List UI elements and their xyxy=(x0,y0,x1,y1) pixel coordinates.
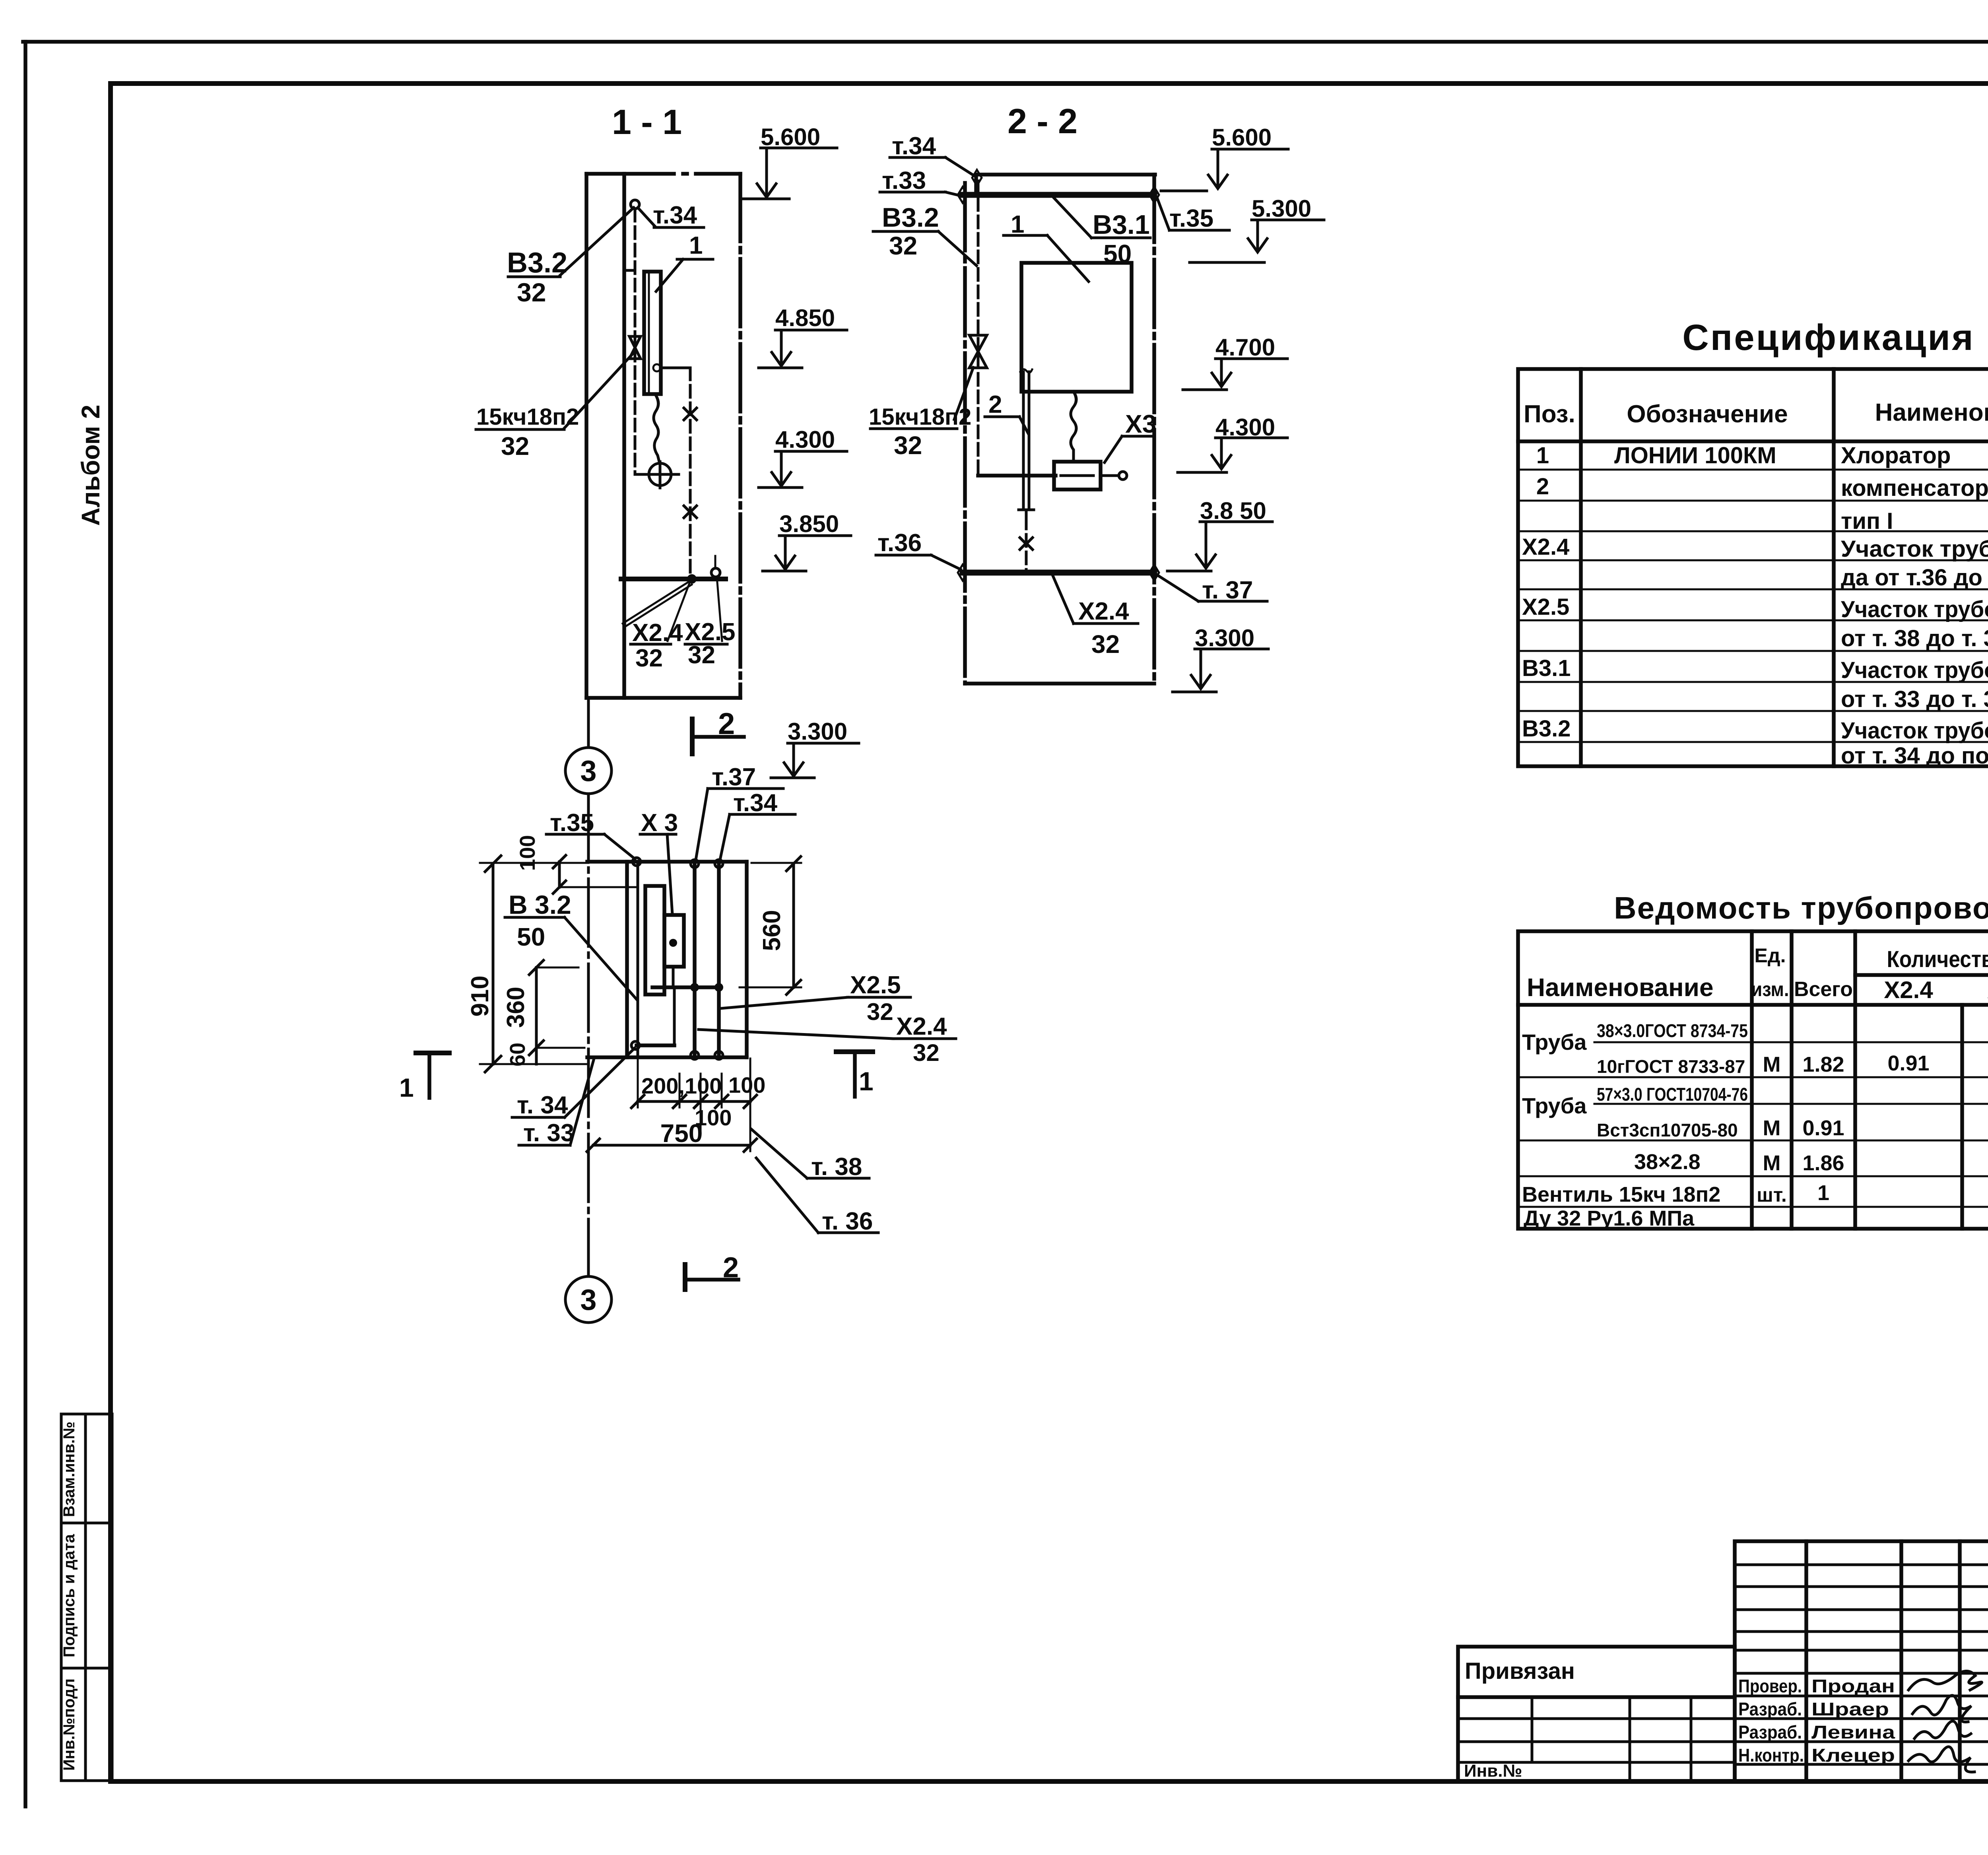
svg-text:Провер.: Провер. xyxy=(1738,1676,1802,1696)
привязан grid verticals xyxy=(1532,1697,1691,1781)
elevation 5.600 bar xyxy=(761,147,837,150)
svg-text:3.8 50: 3.8 50 xyxy=(1200,497,1266,524)
svg-text:50: 50 xyxy=(517,923,545,951)
signature grid rows xyxy=(1735,1565,1988,1764)
dim 100 line top xyxy=(558,862,561,887)
label т.34 underline xyxy=(654,226,704,229)
label Х2.5 plan leader xyxy=(720,997,848,1008)
label т.37 plan underline xyxy=(708,787,783,790)
svg-text:2 - 2: 2 - 2 xyxy=(1008,101,1077,141)
svg-text:компенсатор: компенсатор xyxy=(1841,475,1988,501)
pipe В3.2 drop xyxy=(977,181,980,476)
label 15кч18п2 bar xyxy=(476,428,564,431)
svg-text:Инв.№: Инв.№ xyxy=(1464,1761,1522,1781)
plan corner pipe vertical xyxy=(673,987,676,1045)
section 2-2 left upper edge xyxy=(974,175,978,195)
label Х2.5/32 plan bar xyxy=(848,996,911,999)
svg-text:т. 33: т. 33 xyxy=(523,1119,574,1147)
diagonal pipe line b xyxy=(625,585,692,627)
compensator 2 tube right xyxy=(1028,372,1031,507)
spec header bottom line xyxy=(1518,439,1988,443)
svg-text:Х 3: Х 3 xyxy=(641,809,678,837)
section mark 2 below 1-1 bar xyxy=(693,735,744,739)
svg-text:Альбом 2: Альбом 2 xyxy=(76,405,105,526)
pipe riser Х2.4 plan xyxy=(693,862,697,1057)
svg-text:1: 1 xyxy=(689,232,703,259)
svg-text:Подпись и дата: Подпись и дата xyxy=(60,1534,78,1657)
label т.36 leader xyxy=(931,555,961,569)
svg-text:Ведомость трубопроводов: Ведомость трубопроводов xyxy=(1614,890,1988,925)
dim 910 line xyxy=(492,864,495,1064)
svg-text:Привязан: Привязан xyxy=(1465,1658,1575,1684)
label т.33 underline xyxy=(880,191,945,194)
elevation 4.700 leg xyxy=(1220,359,1223,385)
pipe list span header underline xyxy=(1855,973,1988,977)
svg-text:60: 60 xyxy=(506,1043,530,1066)
elevation 5.600 leg xyxy=(765,148,768,196)
section 2-2 top outline xyxy=(976,173,1155,177)
svg-text:Разраб.: Разраб. xyxy=(1738,1722,1802,1742)
section mark 1 left stem xyxy=(427,1055,431,1098)
elevation 5.600 arrow xyxy=(757,184,776,197)
eductor cross vertical xyxy=(659,462,662,488)
node т.33 diamond xyxy=(958,187,967,203)
label т.37 leader xyxy=(1158,575,1198,601)
elevation 5.300 foot xyxy=(1190,261,1264,264)
elevation 4.700 arrow xyxy=(1212,373,1231,387)
label т.36 plan leader xyxy=(756,1158,818,1233)
svg-text:0.91: 0.91 xyxy=(1887,1051,1929,1075)
svg-text:32: 32 xyxy=(501,432,529,460)
svg-text:шт.: шт. xyxy=(1757,1184,1787,1206)
svg-text:Ду 32 Ру1.6 МПа: Ду 32 Ру1.6 МПа xyxy=(1524,1206,1695,1230)
specification table outline xyxy=(1518,369,1988,766)
left stamp divider 1 xyxy=(61,1522,112,1525)
elevation 3.850 foot xyxy=(763,570,806,573)
svg-text:1: 1 xyxy=(859,1066,874,1096)
svg-text:3.300: 3.300 xyxy=(1195,625,1254,651)
chlorator plan rect xyxy=(645,886,664,995)
svg-text:100: 100 xyxy=(516,835,540,871)
label т.34 plan top underline xyxy=(730,813,795,816)
compensator bottom tee xyxy=(1019,510,1034,517)
svg-text:Н.контр.: Н.контр. xyxy=(1738,1745,1804,1766)
plan wall inner line xyxy=(625,862,629,1057)
plan top wall line xyxy=(587,860,747,864)
svg-text:т.37: т.37 xyxy=(712,763,756,791)
svg-text:Хлоратор: Хлоратор xyxy=(1841,443,1951,468)
node т.37 diamond xyxy=(1149,565,1159,581)
plan cross pipe xyxy=(652,985,719,989)
elevation 5.600 right arrow xyxy=(1208,175,1227,188)
svg-text:Взам.инв.№: Взам.инв.№ xyxy=(60,1422,78,1517)
svg-text:5.300: 5.300 xyxy=(1252,195,1311,222)
svg-text:Х2.4: Х2.4 xyxy=(1078,598,1129,625)
привязан grid rows xyxy=(1458,1719,1735,1762)
dim 360 line xyxy=(535,967,538,1048)
label Х2.4 leader xyxy=(1053,576,1074,624)
outer sheet border top xyxy=(23,40,1988,44)
label Х2.4/32 plan bar xyxy=(893,1037,956,1040)
rotameter outlet plan xyxy=(672,967,675,987)
svg-text:3: 3 xyxy=(580,754,596,787)
pipe B3.2 bottom run xyxy=(978,474,1056,478)
compensator top hook xyxy=(1020,369,1032,373)
section mark 1 right bar xyxy=(836,1049,873,1054)
pipe list header bottom xyxy=(1518,1003,1988,1007)
svg-text:т.33: т.33 xyxy=(882,167,926,194)
svg-text:Поз.: Поз. xyxy=(1524,400,1575,428)
eductor cross horizontal xyxy=(647,473,679,476)
svg-text:В3.2: В3.2 xyxy=(1522,716,1571,742)
svg-text:4.850: 4.850 xyxy=(775,305,835,331)
pipe В3.1 thick top xyxy=(963,192,1154,198)
label т.33 plan leader xyxy=(570,1059,594,1145)
elevation 4.300 right bar xyxy=(1215,437,1287,439)
dim 360 top extension xyxy=(536,967,579,969)
axis 3 line through plan xyxy=(587,794,590,1276)
dim 360 top tick xyxy=(529,960,544,975)
svg-text:Труба: Труба xyxy=(1522,1029,1587,1055)
label 1 leader xyxy=(1047,235,1089,282)
floor pipe Х2.4 thick xyxy=(963,570,1154,576)
svg-text:т.35: т.35 xyxy=(1169,205,1213,232)
label В3.2/32 bar xyxy=(508,276,560,278)
dim 560 top tick xyxy=(786,857,801,871)
elevation 3.300 right bar xyxy=(1195,648,1268,651)
привязан row line xyxy=(1458,1695,1735,1699)
node circle plan bottom a xyxy=(691,1051,699,1059)
signature squiggle Клецер xyxy=(1908,1747,1974,1772)
outer sheet border left xyxy=(23,42,27,1806)
axis 3 line upper segment xyxy=(587,698,590,747)
section mark 1 left bar xyxy=(416,1051,449,1055)
svg-text:Наименование: Наименование xyxy=(1527,973,1714,1002)
label Х3 underline xyxy=(1122,435,1153,438)
plan wall pipe line xyxy=(637,862,639,1057)
label 2 underline xyxy=(985,416,1019,418)
junction dot plan b xyxy=(714,983,723,992)
label Х2.4 bar xyxy=(631,643,671,646)
svg-text:1: 1 xyxy=(399,1073,414,1102)
node т.35 diamond xyxy=(1149,187,1159,203)
dim 560 bottom extension xyxy=(740,987,801,989)
node т.34 circle plan corner xyxy=(631,1041,639,1049)
plan right wall line xyxy=(745,862,749,1057)
svg-text:Ед.: Ед. xyxy=(1755,944,1786,967)
section 2-2 right axis xyxy=(1152,175,1156,684)
svg-text:В3.2: В3.2 xyxy=(507,247,567,279)
riser Х2.5 vertical xyxy=(689,368,692,576)
svg-text:М: М xyxy=(1763,1151,1781,1175)
pipe riser Х2.5 plan xyxy=(717,862,721,1057)
svg-text:Х2.4: Х2.4 xyxy=(1884,977,1933,1003)
title block signature grid outline xyxy=(1735,1541,1988,1781)
diagonal pipe line a xyxy=(623,581,689,624)
svg-text:50: 50 xyxy=(1103,239,1132,268)
pipe В3.2 plan bend xyxy=(559,886,638,888)
svg-text:В3.1: В3.1 xyxy=(1093,210,1150,240)
svg-text:910: 910 xyxy=(466,975,494,1016)
label т.36 plan underline xyxy=(818,1231,878,1234)
node т.34 circle xyxy=(631,200,639,209)
elevation 4.300 arrow xyxy=(772,472,791,486)
svg-text:Количество на участок трубопро: Количество на участок трубопровода xyxy=(1887,946,1988,972)
svg-text:Участок трубопровода: Участок трубопровода xyxy=(1841,718,1988,744)
signature squiggle Левина xyxy=(1914,1721,1971,1738)
axis 3 circle bottom xyxy=(565,1276,612,1323)
elevation 4.850 leg xyxy=(780,330,783,364)
label 1 leader xyxy=(656,259,683,291)
svg-text:Шраер: Шраер xyxy=(1811,1699,1889,1719)
svg-text:М: М xyxy=(1763,1053,1781,1076)
svg-text:1: 1 xyxy=(1817,1181,1829,1205)
label В3.2/32 bar xyxy=(873,230,938,233)
svg-text:Вентиль 15кч 18п2: Вентиль 15кч 18п2 xyxy=(1522,1183,1720,1206)
dim 360 bottom tick xyxy=(529,1041,544,1055)
elevation 3.850 bar xyxy=(779,534,851,537)
svg-text:5.600: 5.600 xyxy=(1212,124,1272,151)
compensator 2 tube left xyxy=(1022,372,1025,507)
node т.35 circle plan xyxy=(633,858,641,866)
elevation 5.600 right foot xyxy=(1161,190,1207,192)
label т.34 underline xyxy=(890,156,945,159)
svg-text:Клецер: Клецер xyxy=(1811,1745,1895,1766)
dim 60 line xyxy=(535,1048,538,1064)
elevation 3.300 leg xyxy=(792,743,795,775)
svg-text:т.35: т.35 xyxy=(550,809,594,837)
elevation 3.850 right leg xyxy=(1205,522,1208,567)
elevation 4.700 bar xyxy=(1215,357,1287,360)
dim 910 top tick xyxy=(485,856,501,872)
elevation 3.850 arrow xyxy=(776,556,795,569)
svg-text:1.86: 1.86 xyxy=(1802,1151,1844,1175)
svg-text:Инв.№подл: Инв.№подл xyxy=(60,1678,78,1771)
dim row extensions xyxy=(638,1059,750,1151)
dim 910 bottom extension xyxy=(480,1063,588,1065)
svg-text:В3.1: В3.1 xyxy=(1522,655,1571,681)
elevation 5.300 bar xyxy=(1252,219,1324,221)
plan bottom wall line xyxy=(587,1055,747,1059)
nozzle stub xyxy=(1101,474,1118,477)
left stamp divider 2 xyxy=(61,1667,112,1670)
elevation 3.300 right foot xyxy=(1173,691,1216,693)
svg-text:4.700: 4.700 xyxy=(1215,334,1275,361)
elevation 4.850 foot xyxy=(759,367,802,369)
elevation 3.850 right bar xyxy=(1200,521,1272,523)
dim 100 tick a xyxy=(553,855,566,868)
rotameter box xyxy=(1054,462,1101,489)
section 1-1 top axis dash xyxy=(683,172,687,176)
svg-text:Х2.4: Х2.4 xyxy=(1522,534,1569,560)
elevation 4.300 leg xyxy=(780,451,783,484)
floor pipe Х2.4 xyxy=(621,577,726,581)
elevation 3.300 arrow xyxy=(784,763,803,776)
svg-text:Х2.4: Х2.4 xyxy=(896,1013,947,1040)
svg-text:от т. 33 до т. 35: от т. 33 до т. 35 xyxy=(1841,686,1988,712)
label т.34 plan top leader xyxy=(720,814,730,860)
elevation 4.850 arrow xyxy=(772,352,791,366)
dim 560 top extension xyxy=(751,862,801,864)
elevation 5.600 right bar xyxy=(1212,148,1288,151)
svg-text:38×3.0ГОСТ 8734-75: 38×3.0ГОСТ 8734-75 xyxy=(1597,1020,1748,1041)
svg-text:т. 38: т. 38 xyxy=(811,1153,862,1181)
chlorator outlet circle xyxy=(653,364,660,371)
svg-text:38×2.8: 38×2.8 xyxy=(1634,1150,1701,1174)
elevation 3.850 right arrow xyxy=(1196,555,1215,568)
elevation 4.300 right leg xyxy=(1220,438,1223,467)
label т.33 leader xyxy=(945,192,960,196)
riser coupling 1 xyxy=(684,408,697,420)
compensator wavy tube xyxy=(654,396,659,462)
label т.34 plan corner leader xyxy=(565,1048,635,1117)
svg-text:32: 32 xyxy=(867,998,893,1025)
svg-text:В 3.2: В 3.2 xyxy=(509,890,571,919)
pipe list row lines xyxy=(1518,1042,1988,1207)
label Х2.4 leader xyxy=(668,579,691,641)
label Х3 plan underline xyxy=(640,833,676,836)
svg-text:15кч18п2: 15кч18п2 xyxy=(476,404,579,430)
label В3.2/50 plan bar xyxy=(505,916,565,919)
svg-text:Х2.4: Х2.4 xyxy=(632,619,683,647)
junction dot plan a xyxy=(690,983,699,992)
svg-text:да от т.36 до т. 37: да от т.36 до т. 37 xyxy=(1841,565,1988,590)
svg-text:1 - 1: 1 - 1 xyxy=(612,102,682,142)
section mark 2 below plan bar xyxy=(686,1278,738,1282)
label 15кч18п2 leader xyxy=(564,354,633,428)
plan corner pipe horizontal xyxy=(637,1043,674,1047)
left stamp table outline xyxy=(61,1414,112,1781)
elevation 4.300 right arrow xyxy=(1212,455,1231,469)
pipe B3.2 bottom bend xyxy=(635,473,649,476)
riser coupling 2 xyxy=(684,506,697,518)
svg-text:32: 32 xyxy=(517,278,546,307)
svg-text:Участок трубопровода: Участок трубопровода xyxy=(1841,657,1988,683)
compensator lower pipe xyxy=(1025,517,1028,573)
section 1-1 top line right part xyxy=(696,172,740,176)
spec col Поз divider xyxy=(1579,369,1583,766)
svg-text:5.600: 5.600 xyxy=(761,124,820,150)
label Х2.5 bar xyxy=(685,643,727,646)
svg-text:т.36: т.36 xyxy=(878,529,922,557)
rotameter plan dot xyxy=(669,939,677,947)
pipe list col Ед.изм divider xyxy=(1790,931,1794,1229)
label т.34 leader xyxy=(638,208,655,227)
svg-text:0.91: 0.91 xyxy=(1802,1116,1844,1140)
node т.37 circle plan xyxy=(691,860,699,868)
svg-text:т. 34: т. 34 xyxy=(517,1092,568,1119)
svg-text:от т. 34 до поз. 1: от т. 34 до поз. 1 xyxy=(1841,743,1988,769)
svg-text:т. 36: т. 36 xyxy=(822,1208,873,1235)
svg-text:В3.2: В3.2 xyxy=(882,202,939,233)
elevation 5.600 foot xyxy=(742,198,789,200)
section 2-2 axis line left xyxy=(963,183,967,684)
elevation 3.300 right leg xyxy=(1200,649,1202,687)
label Х2.5 leader xyxy=(717,577,722,641)
node т.34 circle plan top xyxy=(715,860,723,868)
dim 750 line xyxy=(593,1144,750,1147)
eductor circle with cross xyxy=(649,463,671,486)
svg-text:3.850: 3.850 xyxy=(779,511,839,537)
dim 560 bottom tick xyxy=(786,980,801,995)
node т.36 diamond xyxy=(958,565,967,581)
pipe list col X2.4 divider xyxy=(1960,1005,1964,1229)
svg-text:Х3: Х3 xyxy=(1125,410,1156,438)
dim ticks row xyxy=(631,1095,757,1108)
label т.38 plan underline xyxy=(807,1177,869,1180)
svg-text:3: 3 xyxy=(580,1283,596,1316)
spring tube wavy xyxy=(1071,392,1076,462)
svg-text:т.34: т.34 xyxy=(733,789,778,817)
elevation 5.300 leg xyxy=(1256,220,1259,251)
elevation 3.850 right foot xyxy=(1167,570,1211,573)
pipe list outline xyxy=(1518,931,1988,1229)
svg-text:32: 32 xyxy=(913,1039,940,1066)
chlorator 1 box xyxy=(1021,263,1132,392)
dim 750 tick left xyxy=(587,1139,600,1152)
svg-text:Спецификация: Спецификация xyxy=(1682,317,1974,358)
label т.37 plan leader xyxy=(696,789,708,860)
chlorator 1 box xyxy=(644,272,661,394)
label 15кч18п2 bar xyxy=(870,427,957,430)
pipe B3.2 wall connector xyxy=(624,269,635,272)
label т.36 underline xyxy=(876,554,931,557)
outlet pipe horizontal xyxy=(660,367,690,369)
svg-text:т.34: т.34 xyxy=(653,202,697,229)
elevation 3.300 bar xyxy=(788,742,859,745)
svg-text:Вст3сп10705-80: Вст3сп10705-80 xyxy=(1597,1120,1738,1140)
dim 360 bottom extension xyxy=(536,1047,584,1049)
svg-text:100: 100 xyxy=(728,1072,765,1097)
label В3.2/50 plan leader xyxy=(565,917,637,999)
svg-text:Наименование: Наименование xyxy=(1875,399,1988,426)
dim 200-100 line xyxy=(638,1100,750,1103)
svg-text:32: 32 xyxy=(688,641,715,669)
svg-text:Обозначение: Обозначение xyxy=(1627,400,1788,428)
pipe list col Всего divider xyxy=(1853,931,1857,1229)
svg-text:57×3.0 ГОСТ10704-76: 57×3.0 ГОСТ10704-76 xyxy=(1597,1084,1748,1105)
label 1 underline xyxy=(677,258,713,261)
dim 560 line xyxy=(792,864,795,987)
section mark 2 below 1-1 tick xyxy=(690,719,695,754)
compensator coupling xyxy=(1020,538,1033,550)
elevation 5.600 right leg xyxy=(1217,149,1219,187)
svg-text:М: М xyxy=(1763,1116,1781,1140)
fitting т.38 stem xyxy=(714,556,716,568)
svg-text:560: 560 xyxy=(758,910,786,951)
axis 3 circle top xyxy=(565,748,612,794)
svg-text:32: 32 xyxy=(635,645,663,672)
svg-text:32: 32 xyxy=(889,231,917,260)
section 1-1 bottom line xyxy=(586,696,740,700)
pipe list col Наименование divider xyxy=(1750,931,1754,1229)
signature grid verticals xyxy=(1806,1541,1960,1781)
svg-text:32: 32 xyxy=(1091,630,1120,658)
label т.34 plan corner underline xyxy=(512,1116,565,1119)
chlorator 1 inner line xyxy=(648,272,650,394)
label т.37 underline xyxy=(1198,600,1267,603)
section 1-1 wall inner edge xyxy=(622,174,626,698)
label 2 leader xyxy=(1019,417,1028,433)
dim 910 bottom tick xyxy=(485,1056,501,1072)
svg-text:Продан: Продан xyxy=(1811,1676,1895,1696)
elevation 4.700 foot xyxy=(1183,388,1227,391)
svg-text:1.82: 1.82 xyxy=(1802,1053,1844,1076)
label Х2.4 plan leader xyxy=(699,1029,893,1039)
label В3.1 leader xyxy=(1054,198,1091,238)
svg-text:360: 360 xyxy=(502,987,530,1028)
svg-text:2: 2 xyxy=(988,391,1002,418)
